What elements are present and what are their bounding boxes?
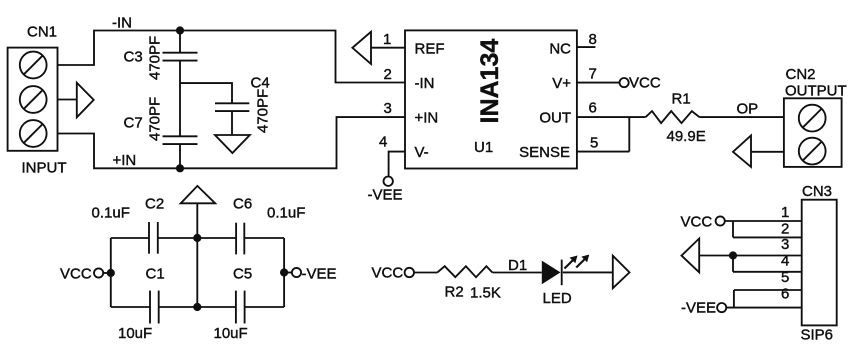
svg-text:VCC: VCC (681, 214, 713, 231)
CN2 screw terminal 2 (799, 138, 826, 165)
svg-text:VCC: VCC (629, 75, 661, 92)
wire -VEE stub right (284, 272, 292, 274)
svg-text:-VEE: -VEE (681, 300, 716, 317)
svg-text:R1: R1 (672, 91, 691, 108)
svg-text:LED: LED (543, 290, 572, 307)
svg-text:0.1uF: 0.1uF (267, 205, 305, 222)
resistor R2 (437, 266, 492, 277)
op-amp U1 body INA134 (405, 30, 577, 168)
svg-text:5: 5 (781, 269, 789, 286)
svg-text:C5: C5 (233, 266, 252, 283)
svg-text:1.5K: 1.5K (470, 285, 501, 302)
svg-text:-IN: -IN (415, 75, 435, 92)
svg-text:REF: REF (415, 41, 445, 58)
wire tie pin1-pin2 (732, 221, 734, 237)
svg-text:6: 6 (589, 100, 597, 117)
wire C3 top lead (179, 31, 181, 53)
node dot center top rail (193, 234, 201, 242)
bottom rail segments (111, 306, 284, 308)
wire CN3 pin3 (733, 255, 802, 257)
port arrow at CN1 middle (points right) (77, 83, 94, 118)
ground arrow above rails (points up) (181, 186, 216, 203)
capacitor C4 (215, 103, 249, 111)
port arrow at REF (points left) (352, 32, 371, 64)
wire CN3 pin6 (726, 307, 801, 309)
svg-text:OUT: OUT (539, 110, 571, 127)
wire tie pin3-pin4 (732, 256, 734, 272)
node junction dot on -IN rail (176, 26, 184, 34)
svg-text:5: 5 (590, 135, 598, 152)
terminal circle -VEE cn3 (717, 303, 726, 312)
wire R1 to CN2 (700, 116, 784, 118)
svg-text:1: 1 (781, 204, 789, 221)
wire tie pin5-pin6 (733, 290, 735, 308)
port arrow after LED (points right) (613, 256, 630, 289)
svg-text:-VEE: -VEE (302, 266, 337, 283)
svg-text:U1: U1 (474, 139, 493, 156)
svg-text:4: 4 (781, 253, 789, 270)
terminal circle -VEE (384, 177, 393, 186)
svg-text:-VEE: -VEE (368, 186, 403, 203)
center ground line (196, 203, 198, 307)
wire CN3 pin1 (725, 220, 802, 222)
wire C7 bottom lead (179, 144, 181, 168)
wire U1 pin5 SENSE stub (577, 151, 629, 153)
svg-text:-IN: -IN (112, 15, 132, 32)
LED D1 cathode bar (561, 260, 563, 286)
top rail segments (111, 237, 284, 239)
svg-text:INPUT: INPUT (22, 160, 67, 177)
wire C3 bottom to C7 top (179, 61, 181, 137)
wire R2 to LED (492, 272, 541, 274)
svg-text:VCC: VCC (60, 266, 92, 283)
terminal circle VCC pin7 (620, 78, 629, 87)
svg-text:470PF: 470PF (255, 89, 272, 133)
wire +IN net: CN1 pin3 to U1 pin3 (58, 117, 406, 168)
CN1 screw terminal 3 (20, 120, 47, 147)
terminal circle VCC cn3 (716, 216, 725, 225)
wire branch to C4 (180, 83, 232, 103)
node junction dot on +IN rail (176, 164, 184, 172)
svg-text:CN2: CN2 (786, 66, 816, 83)
capacitor C1 (150, 291, 159, 324)
wire CN3 pin4 (733, 271, 802, 273)
wire SENSE to OUT tie (628, 117, 630, 152)
capacitor C6 (236, 223, 244, 255)
svg-text:CN1: CN1 (27, 24, 57, 41)
svg-text:CN3: CN3 (802, 183, 832, 200)
wire CN3 pin2 (733, 236, 802, 238)
svg-text:SENSE: SENSE (519, 144, 570, 161)
LED emission arrow 2 (576, 255, 589, 268)
resistor R1 (646, 111, 700, 123)
capacitor C5 (236, 291, 245, 324)
capacitor C7 (163, 136, 198, 144)
svg-text:470PF: 470PF (147, 97, 164, 141)
CN1 screw terminal 1 (20, 52, 47, 79)
svg-text:2: 2 (384, 66, 392, 83)
svg-text:3: 3 (781, 236, 789, 253)
terminal circle VCC rail (94, 268, 103, 277)
svg-text:+IN: +IN (113, 152, 137, 169)
wire U1 pin8 stub (NC) (577, 46, 596, 48)
port arrow at CN2 output (points left) (733, 136, 751, 167)
wire VCC stub left (103, 272, 111, 274)
wire CN3 pin5 (734, 289, 802, 291)
ground arrow below C4 (points down) (215, 135, 250, 153)
svg-text:V+: V+ (552, 75, 571, 92)
svg-text:V-: V- (415, 144, 429, 161)
svg-text:8: 8 (589, 31, 597, 48)
capacitor C3 (163, 53, 198, 61)
svg-text:1: 1 (383, 31, 391, 48)
node dot -VEE on right rail (280, 268, 288, 276)
wire U1 pin7 stub (577, 82, 620, 84)
svg-text:2: 2 (781, 221, 789, 238)
svg-text:49.9E: 49.9E (667, 128, 706, 145)
svg-text:0.1uF: 0.1uF (92, 205, 130, 222)
wire LED to port arrow (563, 271, 613, 273)
terminal circle VCC led (405, 268, 414, 277)
CN1 screw terminal 2 (20, 86, 47, 113)
connector CN2 body (784, 98, 842, 167)
svg-text:INA134: INA134 (476, 39, 504, 124)
connector CN3 body (802, 200, 837, 326)
wire U1 pin1 stub (371, 47, 405, 49)
wire CN1 middle terminal stub (58, 99, 77, 101)
svg-text:OP: OP (737, 101, 759, 118)
svg-text:4: 4 (379, 134, 387, 151)
connector CN1 body (8, 48, 58, 151)
port arrow cn3 (points left) (682, 239, 700, 273)
LED emission arrow 1 (565, 256, 578, 269)
svg-text:C6: C6 (233, 196, 252, 213)
svg-text:C1: C1 (146, 266, 165, 283)
svg-text:C7: C7 (124, 115, 143, 132)
svg-text:10uF: 10uF (214, 325, 248, 342)
svg-text:NC: NC (549, 41, 571, 58)
svg-text:VCC: VCC (372, 265, 404, 282)
wire VCC to R2 (414, 272, 437, 274)
node dot cn3 pins 3-4 (729, 251, 737, 259)
LED D1 anode triangle (542, 261, 561, 285)
power rail network: right rail (283, 238, 285, 307)
svg-text:SIP6: SIP6 (801, 327, 834, 344)
svg-text:+IN: +IN (415, 110, 439, 127)
svg-text:C2: C2 (145, 196, 164, 213)
svg-text:7: 7 (589, 66, 597, 83)
wire arrow to junction (699, 255, 733, 257)
svg-text:R2: R2 (445, 284, 464, 301)
wire U1 pin6 OUT stub (577, 116, 646, 118)
svg-text:3: 3 (384, 100, 392, 117)
power rail network: left rail (110, 238, 112, 307)
node dot VCC on left rail (107, 269, 115, 277)
svg-text:D1: D1 (508, 257, 527, 274)
svg-text:10uF: 10uF (118, 325, 152, 342)
node dot center bottom rail (193, 303, 201, 311)
svg-text:OUTPUT: OUTPUT (785, 82, 847, 99)
svg-text:C3: C3 (124, 49, 143, 66)
wire U1 pin4 to -VEE terminal (389, 152, 405, 177)
capacitor C2 (149, 222, 158, 254)
wire C4 bottom lead (231, 111, 233, 135)
CN2 screw terminal 1 (799, 105, 826, 132)
svg-text:6: 6 (781, 286, 789, 303)
terminal circle -VEE rail (292, 268, 301, 277)
wire -IN net: CN1 pin1 to U1 pin2 (58, 31, 406, 83)
wire CN2 lower terminal stub (751, 151, 784, 153)
svg-text:470PF: 470PF (147, 36, 164, 80)
